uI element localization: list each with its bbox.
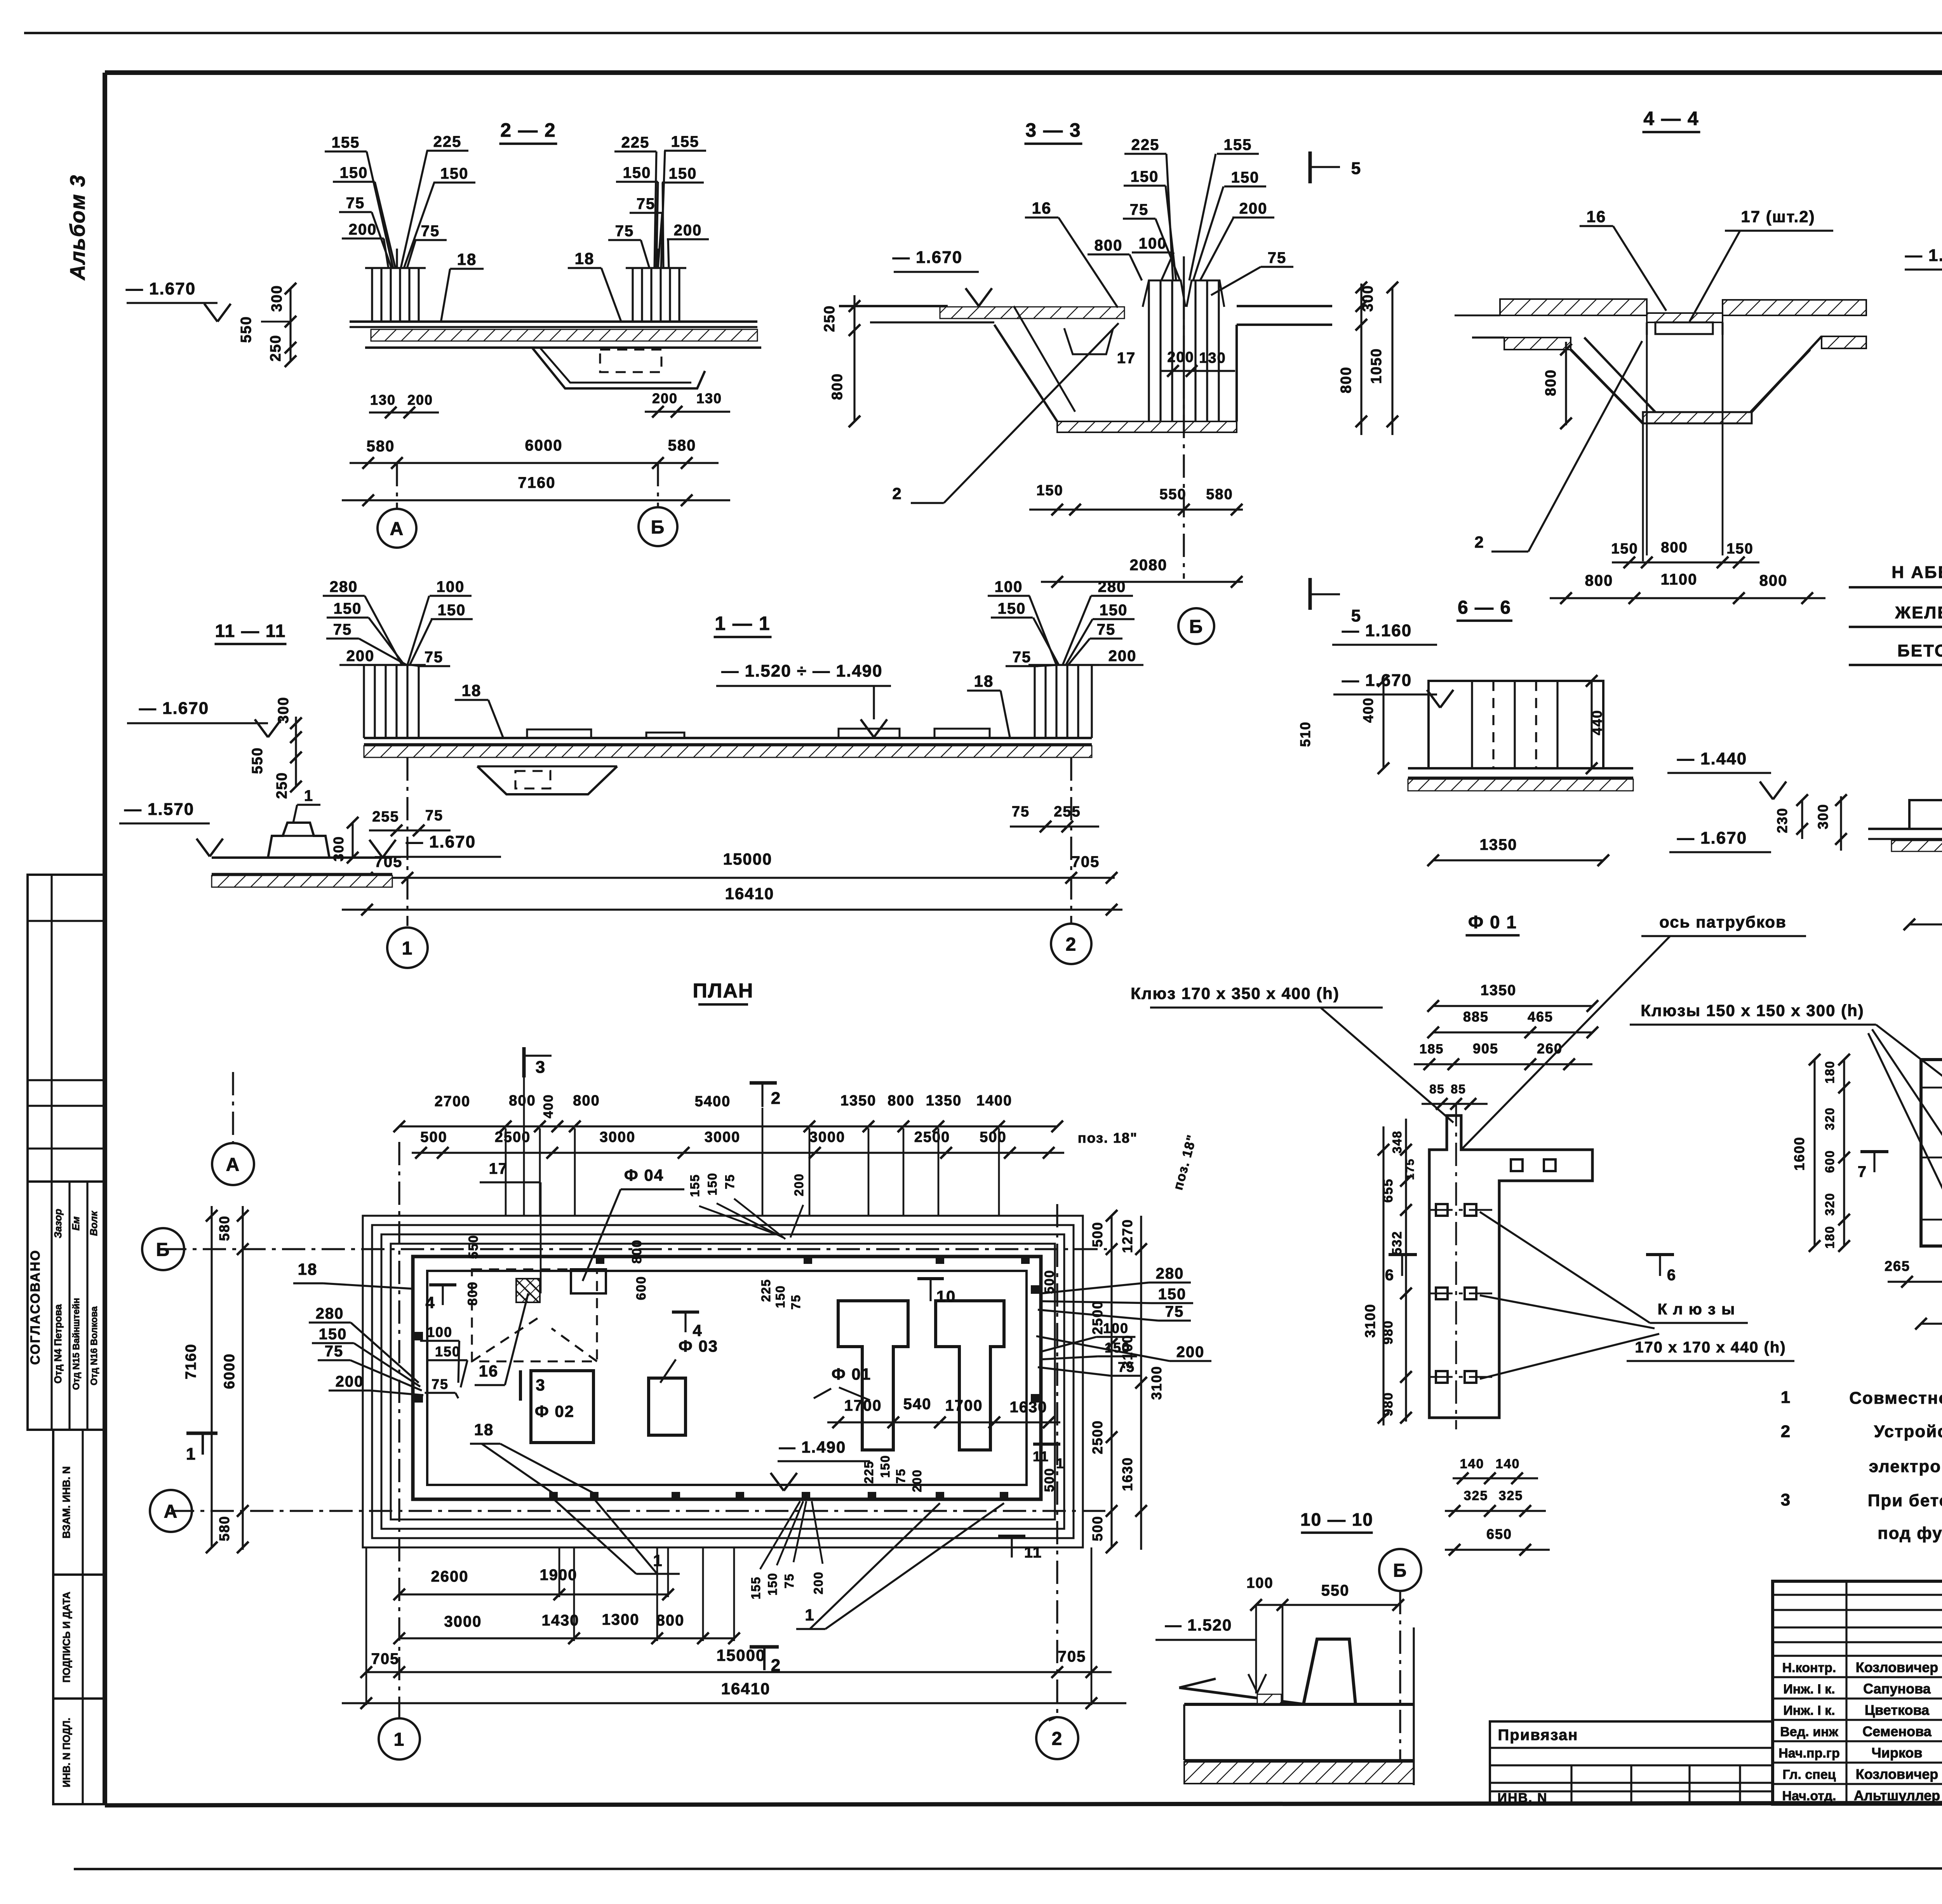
svg-text:— 1.440: — 1.440 xyxy=(1677,749,1747,768)
svg-text:2500: 2500 xyxy=(495,1129,531,1145)
svg-text:17: 17 xyxy=(489,1160,508,1177)
svg-text:800: 800 xyxy=(656,1612,685,1629)
svg-text:К л ю з ы: К л ю з ы xyxy=(1658,1301,1735,1318)
svg-text:200: 200 xyxy=(792,1173,806,1196)
svg-text:400: 400 xyxy=(1360,697,1376,723)
section 2-2 axis circle A xyxy=(396,463,398,508)
section 3-3 section marker 5 top xyxy=(1309,151,1312,183)
svg-text:3: 3 xyxy=(536,1376,545,1394)
svg-text:1050: 1050 xyxy=(1368,348,1385,384)
svg-text:1350: 1350 xyxy=(1480,836,1517,853)
svg-text:600: 600 xyxy=(634,1276,649,1300)
plan small rect near pit xyxy=(571,1269,606,1293)
svg-text:3000: 3000 xyxy=(705,1129,741,1145)
section 1-1 axis circle 2 xyxy=(1070,757,1072,923)
svg-text:ЖЕЛЕЗОБЕТОННОЕ ДНИЩЕ: ЖЕЛЕЗОБЕТОННОЕ ДНИЩЕ ~ 250 xyxy=(1895,603,1942,622)
plan section marker 2 top xyxy=(750,1081,777,1085)
plan axis circle 1 bottom xyxy=(379,1718,420,1760)
plan klyuz squares bottom wall xyxy=(549,1492,558,1500)
svg-text:75: 75 xyxy=(421,223,440,240)
plan axis circle B left xyxy=(142,1228,184,1270)
svg-text:650: 650 xyxy=(1486,1526,1512,1542)
svg-text:4: 4 xyxy=(425,1293,435,1312)
svg-text:75: 75 xyxy=(432,1376,449,1392)
svg-text:905: 905 xyxy=(1473,1041,1498,1056)
plan section marker 3 top xyxy=(522,1047,526,1077)
svg-text:150: 150 xyxy=(766,1572,780,1595)
svg-text:16: 16 xyxy=(1032,199,1052,217)
detail F01 outline xyxy=(1429,1116,1592,1418)
svg-text:100: 100 xyxy=(1139,235,1167,252)
svg-text:200: 200 xyxy=(674,222,702,239)
section 2-2 right wall column xyxy=(632,268,633,322)
svg-text:При бетонировании днища: При бетонировании днища предусмотреть кл… xyxy=(1868,1491,1942,1510)
svg-text:180: 180 xyxy=(1823,1060,1837,1083)
svg-text:75: 75 xyxy=(723,1174,737,1189)
plan axis circle 2 bottom xyxy=(1036,1717,1078,1759)
svg-text:255: 255 xyxy=(1054,804,1081,820)
svg-text:2 — 2: 2 — 2 xyxy=(500,119,556,141)
svg-text:75: 75 xyxy=(789,1294,803,1310)
section 3-3 ground line xyxy=(839,305,948,307)
outer thin border top xyxy=(24,32,1942,34)
svg-text:Ф 03: Ф 03 xyxy=(679,1337,718,1355)
svg-text:2600: 2600 xyxy=(431,1568,469,1585)
plan marker 4 top-left xyxy=(429,1283,456,1286)
svg-text:705: 705 xyxy=(1072,853,1100,870)
svg-text:— 1.520: — 1.520 xyxy=(1165,1616,1232,1634)
svg-text:ПЛАН: ПЛАН xyxy=(693,980,754,1002)
svg-text:200: 200 xyxy=(652,390,678,406)
svg-text:1430: 1430 xyxy=(542,1612,579,1629)
svg-text:11: 11 xyxy=(1033,1448,1049,1464)
svg-text:75: 75 xyxy=(782,1573,796,1589)
section 10-10 geometry xyxy=(1179,1688,1305,1704)
svg-text:200: 200 xyxy=(910,1469,924,1492)
section 4-4 extension lines xyxy=(1646,322,1648,555)
plan marker 4 mid xyxy=(672,1311,699,1314)
svg-text:2500: 2500 xyxy=(1089,1420,1105,1454)
svg-text:3100: 3100 xyxy=(1119,1335,1135,1369)
svg-text:2700: 2700 xyxy=(435,1093,471,1110)
svg-text:200: 200 xyxy=(811,1571,825,1594)
svg-text:5400: 5400 xyxy=(695,1093,731,1110)
svg-text:15000: 15000 xyxy=(723,850,773,868)
svg-text:3: 3 xyxy=(1781,1490,1791,1509)
svg-text:200: 200 xyxy=(1167,349,1194,365)
svg-text:3000: 3000 xyxy=(444,1613,482,1630)
svg-text:500: 500 xyxy=(1042,1468,1057,1492)
svg-text:3: 3 xyxy=(536,1058,546,1077)
svg-text:А: А xyxy=(164,1501,178,1522)
svg-text:1400: 1400 xyxy=(976,1093,1013,1109)
left stamp inv block xyxy=(53,1699,105,1804)
section 4-4 pit bottom xyxy=(1643,412,1752,423)
svg-text:18: 18 xyxy=(298,1260,318,1278)
svg-text:200: 200 xyxy=(346,647,375,665)
svg-text:500: 500 xyxy=(420,1129,447,1145)
svg-text:18: 18 xyxy=(974,672,994,690)
svg-text:Привязан: Привязан xyxy=(1498,1726,1578,1744)
svg-text:75: 75 xyxy=(637,195,656,212)
svg-text:800: 800 xyxy=(1585,572,1613,589)
svg-text:— 1.160: — 1.160 xyxy=(1342,621,1412,640)
svg-text:ось патрубков: ось патрубков xyxy=(1659,913,1787,931)
svg-text:705: 705 xyxy=(371,1650,400,1667)
svg-text:150: 150 xyxy=(773,1285,787,1308)
plan marker 10 xyxy=(917,1277,944,1280)
detail F02 marker 7 left xyxy=(1860,1150,1888,1153)
svg-text:— 1.670: — 1.670 xyxy=(126,279,196,298)
section 3-3 central walls xyxy=(1148,280,1150,421)
title block upper small rows xyxy=(1773,1594,1942,1596)
svg-text:Б: Б xyxy=(1189,616,1204,637)
svg-text:580: 580 xyxy=(216,1215,232,1241)
svg-text:1: 1 xyxy=(394,1729,405,1750)
left stamp podpis block xyxy=(53,1575,105,1699)
plan F02 rect xyxy=(531,1371,593,1443)
section 4-4 top concrete strips xyxy=(1500,299,1647,315)
svg-text:800: 800 xyxy=(573,1093,600,1109)
privyazan box xyxy=(1490,1721,1773,1804)
svg-text:6000: 6000 xyxy=(525,437,563,454)
svg-text:Зазор: Зазор xyxy=(52,1209,64,1238)
svg-text:250: 250 xyxy=(821,305,838,332)
svg-text:3100: 3100 xyxy=(1362,1304,1378,1338)
svg-text:325: 325 xyxy=(1499,1488,1523,1503)
svg-text:1350: 1350 xyxy=(840,1093,877,1109)
svg-text:200: 200 xyxy=(349,221,377,238)
svg-text:16: 16 xyxy=(479,1362,499,1380)
svg-text:540: 540 xyxy=(903,1396,932,1413)
svg-text:230: 230 xyxy=(1774,808,1790,833)
svg-text:800: 800 xyxy=(630,1239,644,1264)
svg-text:ПОДПИСЬ И ДАТА: ПОДПИСЬ И ДАТА xyxy=(61,1592,72,1683)
svg-text:Клюзы 150 х 150 х 300 (h): Клюзы 150 х 150 х 300 (h) xyxy=(1641,1001,1864,1020)
svg-text:100: 100 xyxy=(437,578,465,595)
svg-text:100: 100 xyxy=(1103,1320,1129,1336)
svg-text:280: 280 xyxy=(1156,1265,1184,1282)
section 10-10 axis circle B xyxy=(1379,1549,1421,1591)
svg-text:225: 225 xyxy=(621,134,650,151)
section 2-2 left wall column xyxy=(371,268,373,322)
section 1-1 slab xyxy=(364,737,1092,739)
svg-text:Клюз 170 х 350 х 400 (h): Клюз 170 х 350 х 400 (h) xyxy=(1131,984,1340,1002)
svg-text:Отд N16 Волкова: Отд N16 Волкова xyxy=(89,1306,99,1385)
plan top extension lines xyxy=(505,1128,507,1216)
svg-text:580: 580 xyxy=(367,438,395,455)
svg-text:17 (шт.2): 17 (шт.2) xyxy=(1741,207,1815,226)
svg-text:255: 255 xyxy=(372,809,399,825)
svg-text:280: 280 xyxy=(316,1305,344,1322)
svg-text:75: 75 xyxy=(1268,249,1287,266)
svg-text:16410: 16410 xyxy=(725,884,774,903)
section 1-1 channel below xyxy=(477,766,617,794)
svg-text:Гл. спец: Гл. спец xyxy=(1782,1767,1836,1782)
svg-text:— 1.670: — 1.670 xyxy=(406,832,476,851)
svg-text:1350: 1350 xyxy=(926,1093,962,1109)
svg-text:2: 2 xyxy=(1066,934,1077,955)
svg-text:— 1.570: — 1.570 xyxy=(124,800,194,819)
svg-text:2500: 2500 xyxy=(914,1129,950,1145)
svg-text:200: 200 xyxy=(407,392,433,408)
svg-text:150: 150 xyxy=(1100,602,1128,619)
svg-text:1: 1 xyxy=(304,787,313,804)
svg-text:800: 800 xyxy=(465,1281,480,1306)
svg-text:11: 11 xyxy=(1024,1544,1042,1561)
svg-text:510: 510 xyxy=(1297,721,1313,747)
svg-text:3000: 3000 xyxy=(600,1129,636,1145)
svg-text:Ем: Ем xyxy=(70,1217,82,1231)
svg-text:Чирков: Чирков xyxy=(1871,1745,1922,1761)
section 2-2 slab xyxy=(350,320,757,323)
svg-text:1270: 1270 xyxy=(1119,1219,1135,1253)
svg-text:130: 130 xyxy=(1199,350,1226,366)
svg-text:150: 150 xyxy=(1158,1286,1187,1303)
svg-text:2500: 2500 xyxy=(1089,1300,1105,1335)
detail F01 klyuz squares xyxy=(1511,1159,1523,1171)
plan axis lines xyxy=(163,1248,1107,1250)
svg-text:1300: 1300 xyxy=(602,1611,640,1628)
svg-text:— 1.670: — 1.670 xyxy=(1342,671,1412,690)
section 3-3 section marker 5 bottom xyxy=(1309,578,1312,610)
svg-text:705: 705 xyxy=(1058,1648,1086,1665)
svg-text:75: 75 xyxy=(615,223,634,240)
svg-text:500: 500 xyxy=(1089,1516,1105,1541)
svg-text:1: 1 xyxy=(186,1445,196,1464)
detail F02 centerlines xyxy=(1921,1087,1942,1089)
plan F01 T shapes xyxy=(838,1301,908,1450)
svg-text:18: 18 xyxy=(462,681,482,700)
plan outer nested rectangles xyxy=(363,1216,1083,1547)
svg-text:320: 320 xyxy=(1823,1107,1837,1130)
svg-text:16: 16 xyxy=(1587,207,1606,226)
svg-text:75: 75 xyxy=(1097,621,1116,638)
svg-text:1: 1 xyxy=(1781,1388,1791,1407)
svg-text:150: 150 xyxy=(1131,168,1159,185)
plan marker 3 at F02 xyxy=(519,1370,522,1401)
svg-text:поз. 18": поз. 18" xyxy=(1078,1130,1138,1146)
plan dashed pit top-left xyxy=(472,1269,597,1361)
svg-text:Инж. I к.: Инж. I к. xyxy=(1783,1703,1835,1718)
svg-text:Альбом 3: Альбом 3 xyxy=(66,174,89,281)
svg-text:500: 500 xyxy=(1089,1222,1105,1247)
svg-text:2: 2 xyxy=(771,1089,781,1108)
svg-text:— 1.670: — 1.670 xyxy=(1905,246,1942,265)
plan axis circle A top xyxy=(212,1143,254,1185)
svg-text:Нач.пр.гр: Нач.пр.гр xyxy=(1778,1746,1839,1761)
plan marker 2 bottom xyxy=(750,1645,779,1649)
svg-text:11 — 11: 11 — 11 xyxy=(215,621,286,641)
svg-text:500: 500 xyxy=(980,1129,1006,1145)
svg-text:7160: 7160 xyxy=(518,474,556,491)
svg-text:550: 550 xyxy=(249,747,266,774)
svg-text:2080: 2080 xyxy=(1130,557,1168,574)
svg-text:2: 2 xyxy=(892,484,902,503)
svg-text:532: 532 xyxy=(1390,1231,1404,1255)
svg-text:200: 200 xyxy=(1239,200,1268,217)
svg-text:— 1.670: — 1.670 xyxy=(1677,828,1747,848)
svg-text:Устройство полов произ: Устройство полов производить после прокл… xyxy=(1874,1422,1942,1441)
svg-text:1350: 1350 xyxy=(1481,982,1517,999)
svg-text:155: 155 xyxy=(1224,136,1252,153)
svg-text:6000: 6000 xyxy=(221,1353,238,1389)
svg-text:85: 85 xyxy=(1429,1082,1445,1096)
svg-text:150: 150 xyxy=(669,165,697,182)
svg-text:250: 250 xyxy=(268,334,284,361)
svg-text:электропроводки по черт.: электропроводки по черт. электротехничес… xyxy=(1869,1457,1942,1476)
svg-text:75: 75 xyxy=(894,1468,908,1484)
svg-text:85: 85 xyxy=(1451,1082,1466,1096)
section 10-10 right break line xyxy=(1413,1627,1415,1785)
svg-text:150: 150 xyxy=(340,164,368,181)
svg-text:200: 200 xyxy=(1108,647,1137,665)
svg-text:Совместно с данным: Совместно с данным см. л. КЖ-3 xyxy=(1849,1389,1942,1408)
svg-text:Отд N15 Вайнштейн: Отд N15 Вайнштейн xyxy=(71,1298,82,1390)
svg-text:100: 100 xyxy=(1246,1575,1273,1591)
svg-text:550: 550 xyxy=(238,316,254,343)
svg-text:150: 150 xyxy=(998,600,1026,617)
svg-text:465: 465 xyxy=(1528,1009,1553,1025)
svg-text:800: 800 xyxy=(829,373,846,400)
svg-text:ИНВ. N: ИНВ. N xyxy=(1498,1791,1548,1805)
svg-text:348: 348 xyxy=(1390,1130,1404,1153)
svg-text:1700: 1700 xyxy=(844,1397,882,1414)
section 2-2 axis circle B xyxy=(657,463,659,506)
section 3-3 axis circle B xyxy=(1178,608,1214,644)
svg-text:1630: 1630 xyxy=(1119,1457,1135,1491)
svg-text:ВЗАМ. ИНВ. N: ВЗАМ. ИНВ. N xyxy=(61,1466,72,1539)
svg-text:75: 75 xyxy=(1165,1303,1184,1320)
svg-text:550: 550 xyxy=(1159,486,1186,503)
svg-text:18: 18 xyxy=(457,250,477,268)
svg-text:100: 100 xyxy=(995,578,1023,595)
svg-text:Нач.отд.: Нач.отд. xyxy=(1782,1789,1836,1803)
svg-text:250: 250 xyxy=(274,772,290,799)
svg-text:Цветкова: Цветкова xyxy=(1865,1702,1930,1718)
svg-text:А: А xyxy=(226,1154,240,1175)
svg-text:150: 150 xyxy=(1231,169,1260,186)
svg-text:БЕТОННАЯ ПОДГОТОВКА 10: БЕТОННАЯ ПОДГОТОВКА 100 ИЗ БЕТОНА КЛАССА… xyxy=(1897,641,1942,660)
svg-text:1100: 1100 xyxy=(1661,571,1698,588)
plan marker 1 left mid xyxy=(186,1432,218,1435)
svg-text:1: 1 xyxy=(1056,1455,1065,1471)
svg-text:300: 300 xyxy=(1815,804,1831,829)
section 1-1 equipment pads xyxy=(527,729,591,738)
svg-text:200: 200 xyxy=(336,1373,364,1390)
svg-text:Вед. инж: Вед. инж xyxy=(1780,1725,1838,1739)
svg-text:100: 100 xyxy=(427,1324,452,1340)
svg-text:3100: 3100 xyxy=(1148,1366,1164,1400)
section 3-3 pit xyxy=(994,325,1057,421)
svg-text:17: 17 xyxy=(1117,350,1136,367)
svg-text:150: 150 xyxy=(319,1326,347,1343)
svg-text:150: 150 xyxy=(623,164,651,181)
section 4-4 trough pos 17 xyxy=(1655,322,1713,334)
svg-text:75: 75 xyxy=(346,195,365,212)
svg-text:Ф 04: Ф 04 xyxy=(624,1166,664,1184)
svg-text:Ф 01: Ф 01 xyxy=(832,1365,871,1383)
svg-text:1600: 1600 xyxy=(1791,1136,1807,1171)
section 1-1 axis circle 1 xyxy=(406,757,408,926)
svg-text:СОГЛАСОВАНО: СОГЛАСОВАНО xyxy=(28,1249,43,1365)
svg-text:5: 5 xyxy=(1351,159,1361,178)
svg-text:ИНВ. N ПОДЛ.: ИНВ. N ПОДЛ. xyxy=(61,1718,72,1787)
svg-text:75: 75 xyxy=(325,1343,344,1360)
svg-text:Отд N4 Петрова: Отд N4 Петрова xyxy=(52,1304,64,1384)
section 1-1 left wall column xyxy=(363,665,365,738)
svg-text:Б: Б xyxy=(156,1239,171,1260)
left stamp vzam inv block xyxy=(53,1430,105,1575)
svg-text:7: 7 xyxy=(1858,1163,1867,1180)
section 4-4 ground level line xyxy=(1455,315,1500,317)
svg-text:155: 155 xyxy=(332,134,360,151)
svg-text:Семенова: Семенова xyxy=(1862,1723,1932,1739)
svg-text:Козловичер: Козловичер xyxy=(1856,1766,1938,1782)
svg-text:885: 885 xyxy=(1463,1009,1489,1025)
plan klyuz hatched square xyxy=(516,1279,540,1302)
svg-text:7160: 7160 xyxy=(183,1344,199,1380)
svg-text:155: 155 xyxy=(688,1174,702,1197)
plan bottom extension lines xyxy=(559,1547,560,1597)
svg-text:18: 18 xyxy=(474,1420,494,1439)
plan klyuz squares side walls xyxy=(414,1332,423,1340)
svg-text:Инж. I к.: Инж. I к. xyxy=(1783,1682,1835,1697)
svg-text:800: 800 xyxy=(1661,540,1688,556)
svg-text:А: А xyxy=(390,519,404,539)
section 11-11 hump geometry xyxy=(212,856,392,859)
detail F02 rect xyxy=(1921,1060,1942,1246)
svg-text:1: 1 xyxy=(805,1606,814,1624)
outer thin border bottom xyxy=(74,1868,1942,1869)
svg-text:75: 75 xyxy=(1130,201,1149,218)
svg-text:500: 500 xyxy=(1042,1270,1057,1294)
svg-text:580: 580 xyxy=(668,437,696,454)
svg-text:1700: 1700 xyxy=(945,1397,983,1414)
svg-text:130: 130 xyxy=(370,392,396,408)
svg-text:265: 265 xyxy=(1885,1258,1910,1274)
title block outline xyxy=(1773,1581,1942,1804)
svg-text:170 х 170 х 440 (h): 170 х 170 х 440 (h) xyxy=(1635,1339,1786,1356)
svg-text:130: 130 xyxy=(696,390,722,406)
svg-text:1: 1 xyxy=(653,1551,663,1570)
svg-text:150: 150 xyxy=(435,1344,461,1359)
plan axis circle A left xyxy=(150,1490,192,1532)
section 4-4 center strip pos 16 xyxy=(1647,313,1723,322)
svg-text:140: 140 xyxy=(1460,1457,1484,1471)
svg-text:800: 800 xyxy=(1338,366,1354,393)
plan marker 11 pair xyxy=(998,1535,1025,1538)
svg-text:225: 225 xyxy=(433,133,462,150)
svg-text:Н.контр.: Н.контр. xyxy=(1782,1660,1836,1675)
svg-text:Сапунова: Сапунова xyxy=(1863,1681,1931,1697)
section 11-11 slab hatch xyxy=(212,873,392,875)
svg-text:3 — 3: 3 — 3 xyxy=(1025,119,1081,141)
svg-text:4 — 4: 4 — 4 xyxy=(1643,108,1699,129)
svg-text:75: 75 xyxy=(425,649,444,666)
svg-text:225: 225 xyxy=(1131,136,1160,153)
svg-text:300: 300 xyxy=(269,285,285,312)
svg-text:325: 325 xyxy=(1464,1488,1488,1503)
svg-text:16410: 16410 xyxy=(721,1679,771,1698)
svg-text:— 1.670: — 1.670 xyxy=(893,248,962,267)
svg-text:Н АБЕТОНКА С УКЛОНОМ: Н АБЕТОНКА С УКЛОНОМ ИЗ БЕТОНА КЛАССА В … xyxy=(1892,563,1942,582)
detail F01 markers 6 xyxy=(1389,1253,1417,1256)
title block signature rows xyxy=(1773,1655,1942,1657)
svg-text:75: 75 xyxy=(425,808,443,824)
svg-text:10: 10 xyxy=(936,1287,956,1305)
left stamp empty grid xyxy=(28,875,105,1182)
